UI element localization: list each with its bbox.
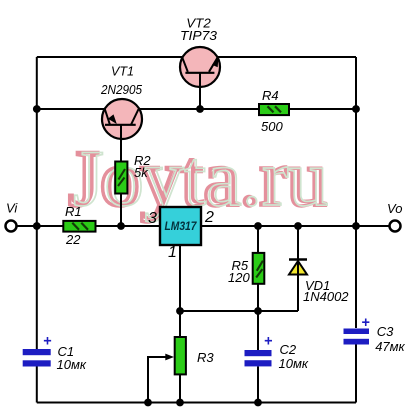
wire C2 branch bottom xyxy=(257,367,259,403)
node Vo junction xyxy=(352,222,360,230)
node R3 bottom junction xyxy=(176,399,184,407)
svg-text:2N2905: 2N2905 xyxy=(100,82,143,97)
diode VD1 1N4002 xyxy=(289,260,307,275)
wiper arrowhead xyxy=(165,354,174,361)
svg-text:C2: C2 xyxy=(280,342,297,357)
terminal Vi xyxy=(6,221,17,232)
resistor R4 xyxy=(259,104,289,115)
node C2 bottom junction xyxy=(254,399,262,407)
svg-text:3: 3 xyxy=(148,210,157,227)
svg-text:10мк: 10мк xyxy=(279,356,309,371)
svg-text:+: + xyxy=(361,315,369,331)
node Vi junction xyxy=(33,222,41,230)
svg-text:Vi: Vi xyxy=(6,201,18,216)
svg-text:R3: R3 xyxy=(197,350,214,365)
wire R3 wiper to bottom xyxy=(148,357,170,403)
capacitor C3 xyxy=(344,315,370,345)
wire VT1 base lead xyxy=(120,125,122,226)
node VD1 top junction xyxy=(294,222,302,230)
resistor R5 xyxy=(253,253,265,284)
wire left rail x=36 xyxy=(36,57,38,349)
svg-text:LM317: LM317 xyxy=(165,219,198,233)
svg-text:1: 1 xyxy=(168,244,177,261)
svg-text:+: + xyxy=(264,334,272,350)
wire VD1 branch xyxy=(297,226,299,311)
watermark Joyta.ru xyxy=(68,133,329,223)
resistor R1 xyxy=(63,221,95,232)
wire R5 branch xyxy=(257,226,259,311)
capacitor C1 xyxy=(23,334,52,367)
svg-text:R4: R4 xyxy=(262,88,279,103)
node R5 top junction xyxy=(254,222,262,230)
svg-text:47мк: 47мк xyxy=(375,339,405,354)
wire bottom rail y=402.5 xyxy=(37,402,356,404)
svg-text:Vo: Vo xyxy=(387,201,402,216)
svg-text:22: 22 xyxy=(65,232,81,247)
node R5-C2 junction xyxy=(254,307,262,315)
wire VT1 row y=109 xyxy=(37,108,356,110)
svg-text:R1: R1 xyxy=(65,204,82,219)
wire mid row y=226 left xyxy=(17,225,160,227)
node wiper bottom junction xyxy=(144,399,152,407)
wire VT2 base lead xyxy=(199,73,201,109)
svg-text:C3: C3 xyxy=(377,324,394,339)
node adj junction xyxy=(176,307,184,315)
node R4 right junction xyxy=(352,105,360,113)
wire LM317 pin1 down xyxy=(179,245,181,311)
wire mid row y=226 right xyxy=(200,225,389,227)
svg-text:120: 120 xyxy=(228,270,250,285)
wire top rail y=57 xyxy=(37,56,356,58)
capacitor C2 xyxy=(245,334,273,367)
svg-text:+: + xyxy=(43,334,51,350)
node R2 bottom junction xyxy=(117,222,125,230)
svg-text:2: 2 xyxy=(204,209,214,226)
wire C2 branch top xyxy=(257,311,259,351)
svg-text:TIP73: TIP73 xyxy=(180,28,218,43)
wire right rail below C3 xyxy=(355,345,357,403)
wire R3 branch xyxy=(179,311,181,403)
svg-text:10мк: 10мк xyxy=(57,357,87,372)
svg-text:5k: 5k xyxy=(134,165,149,180)
wire right rail x=356 xyxy=(355,57,357,328)
IC U1 LM317 xyxy=(160,207,201,245)
terminal Vo xyxy=(390,221,401,232)
wire left rail below C1 xyxy=(36,367,38,403)
svg-text:500: 500 xyxy=(261,119,283,134)
resistor R3 (pot) xyxy=(175,337,186,374)
svg-text:VT1: VT1 xyxy=(111,64,134,79)
wire adj row y=311 xyxy=(180,310,298,312)
node left-top junction xyxy=(33,105,41,113)
resistor R2 xyxy=(115,162,127,194)
node VT2 base junction xyxy=(196,105,204,113)
svg-text:1N4002: 1N4002 xyxy=(303,289,349,304)
transistor VT1 2N2905 xyxy=(102,99,142,226)
transistor VT2 TIP73 xyxy=(180,47,220,109)
